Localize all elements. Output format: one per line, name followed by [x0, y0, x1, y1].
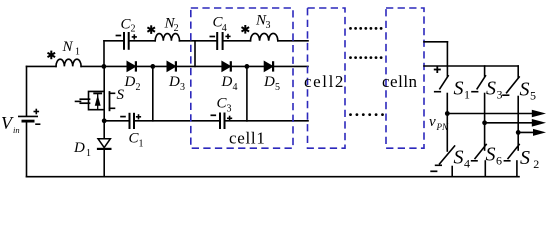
label N2 [164, 16, 179, 34]
label S3 [486, 78, 503, 102]
label S4 [454, 147, 471, 171]
label C1 [129, 131, 144, 150]
dotted continuation row middle [349, 56, 382, 59]
wire leg3 upper [517, 97, 519, 151]
wire N3 stub into cell2 [278, 40, 308, 42]
cell1 dashed box [191, 8, 293, 148]
wire left rail bottom [26, 122, 28, 176]
label N3 [255, 13, 271, 31]
svg-text:2: 2 [174, 23, 179, 34]
wire bottom row stub into cell2 [247, 120, 308, 122]
svg-text:D: D [124, 74, 136, 90]
arrow phase C [533, 129, 546, 136]
C4 polarity minus [210, 36, 216, 38]
svg-text:D: D [263, 74, 275, 90]
wire C2 to N2 [130, 40, 156, 42]
svg-text:v: v [429, 114, 436, 130]
svg-text:1: 1 [464, 88, 470, 102]
svg-text:D: D [168, 74, 180, 90]
wire celln to bridge top [424, 41, 447, 43]
wire riser top rail to main rail [194, 41, 196, 67]
svg-text:PN: PN [436, 122, 449, 132]
svg-text:in: in [13, 125, 20, 135]
label D2 [124, 74, 141, 93]
dotted continuation row top [349, 27, 382, 30]
svg-text:S: S [486, 144, 496, 166]
svg-text:3: 3 [266, 20, 271, 31]
svg-text:3: 3 [497, 88, 503, 102]
wire riser node B down [152, 66, 154, 120]
diode D5 [264, 61, 273, 71]
svg-text:5: 5 [530, 89, 536, 103]
svg-text:3: 3 [180, 82, 185, 93]
svg-text:2: 2 [136, 82, 141, 93]
capacitor C3 [220, 114, 225, 129]
svg-text:cell1: cell1 [229, 129, 266, 148]
wire main rail D5 stub into cell2 [274, 65, 308, 67]
wire leg2 upper [484, 94, 486, 151]
wire C3 to riser C [225, 120, 247, 122]
svg-text:S: S [486, 78, 496, 100]
wire celln to bus [424, 65, 518, 67]
svg-text:1: 1 [139, 139, 144, 150]
label C4 [213, 14, 227, 34]
switch S6 [475, 145, 486, 159]
wire bottom rail [27, 176, 520, 178]
label S2 [520, 147, 539, 171]
node phase B [482, 120, 487, 125]
wire C1 row left [104, 120, 128, 122]
svg-text:cell2: cell2 [304, 72, 345, 91]
node B [150, 64, 155, 69]
node phase A [445, 111, 450, 116]
capacitor C4 [217, 33, 222, 49]
C1 polarity minus [120, 116, 126, 118]
cell2 dashed box [308, 8, 346, 148]
wire C1 to C3 [135, 120, 219, 122]
capacitor C1 [130, 114, 135, 128]
wire riser to C4 [195, 40, 216, 42]
arrow phase A [532, 110, 546, 118]
wire riser node C down [246, 66, 248, 120]
switch S2 [508, 145, 519, 159]
capacitor C2 [124, 33, 129, 49]
wire main rail D2 to node B [137, 65, 167, 67]
wire input to N1 [27, 65, 57, 67]
diode D3 [167, 61, 176, 71]
v_PN minus sign [430, 170, 437, 172]
dotted continuation row bottom [349, 113, 384, 116]
C3 polarity plus [227, 116, 232, 121]
svg-text:3: 3 [227, 104, 232, 115]
transistor S (MOSFET with body diode) [76, 91, 115, 110]
svg-text:D: D [221, 74, 233, 90]
label C3 [217, 96, 232, 115]
svg-text:D: D [73, 140, 85, 156]
svg-text:2: 2 [131, 24, 136, 35]
battery plus sign [34, 109, 40, 115]
battery V_in [18, 116, 38, 121]
C4 polarity plus [225, 34, 230, 39]
svg-text:S: S [454, 147, 464, 169]
wire leg3 corner [517, 66, 519, 78]
wire left rail top [26, 66, 28, 115]
svg-text:4: 4 [464, 157, 470, 171]
wire main rail D4 to node C [232, 65, 265, 67]
label C2 [121, 17, 136, 35]
wire node A down to MOSFET [103, 66, 105, 91]
C2 polarity minus [116, 35, 122, 37]
node C1 junction [102, 118, 107, 123]
C2 polarity plus [132, 34, 137, 39]
svg-text:1: 1 [86, 148, 91, 159]
svg-text:6: 6 [496, 154, 502, 168]
svg-text:S: S [520, 79, 530, 101]
wire main rail A to D2 [104, 65, 127, 67]
wire top rail to C2 [104, 40, 123, 42]
node C [245, 64, 250, 69]
label S1 [454, 78, 471, 102]
diode D2 [127, 61, 136, 71]
wire MOSFET to C1 node [103, 110, 105, 121]
coupling star N3 [242, 25, 250, 34]
coupling star N2 [147, 25, 155, 34]
label v_PN [429, 114, 449, 132]
v_PN plus sign [434, 66, 441, 73]
wire leg1 upper [446, 94, 448, 152]
svg-text:4: 4 [233, 82, 238, 93]
label D5 [263, 74, 280, 93]
label D4 [221, 74, 238, 93]
svg-text:2: 2 [533, 157, 539, 171]
coupling star N1 [48, 51, 56, 60]
svg-text:S: S [454, 78, 464, 100]
wire C1 node to D1 [103, 121, 105, 139]
wire phase B [485, 122, 534, 124]
svg-text:S: S [520, 147, 530, 169]
wire N2 to riser [180, 40, 196, 42]
battery minus sign [35, 123, 40, 125]
inductor N1 [56, 59, 81, 66]
C1 polarity plus [136, 114, 141, 119]
label S5 [520, 79, 537, 103]
inductor N3 [251, 33, 278, 40]
node A [102, 64, 107, 69]
label N1 [62, 39, 81, 58]
svg-text:N: N [62, 39, 74, 55]
inductor N2 [155, 34, 179, 41]
svg-text:1: 1 [75, 47, 80, 58]
wire C4 to N3 [223, 40, 250, 42]
label V_in [1, 113, 20, 135]
svg-text:celln: celln [382, 72, 418, 91]
diode D4 [222, 61, 231, 71]
wire bridge corner drop [446, 42, 448, 76]
svg-text:S: S [117, 87, 125, 103]
wire D1 to bottom rail [103, 150, 105, 177]
diode D1 (outline, pointing down) [98, 139, 110, 149]
svg-text:5: 5 [275, 82, 280, 93]
wire N1 to node A [81, 65, 104, 67]
label D1 [73, 140, 91, 159]
switch S1 [440, 76, 448, 89]
svg-text:4: 4 [222, 23, 227, 34]
label S6 [486, 144, 503, 168]
arrow phase B [532, 119, 546, 127]
C3 polarity minus [211, 114, 217, 116]
switch S4 [440, 146, 455, 164]
switch S5 [507, 77, 520, 93]
label D3 [168, 74, 185, 93]
wire riser node A to top rail [103, 41, 105, 67]
wire phase A [447, 113, 533, 115]
switch S3 [484, 66, 486, 76]
celln dashed box [386, 8, 424, 148]
wire main rail D3 to riser [177, 65, 222, 67]
node phase C [516, 130, 521, 135]
wire phase C [518, 131, 533, 133]
